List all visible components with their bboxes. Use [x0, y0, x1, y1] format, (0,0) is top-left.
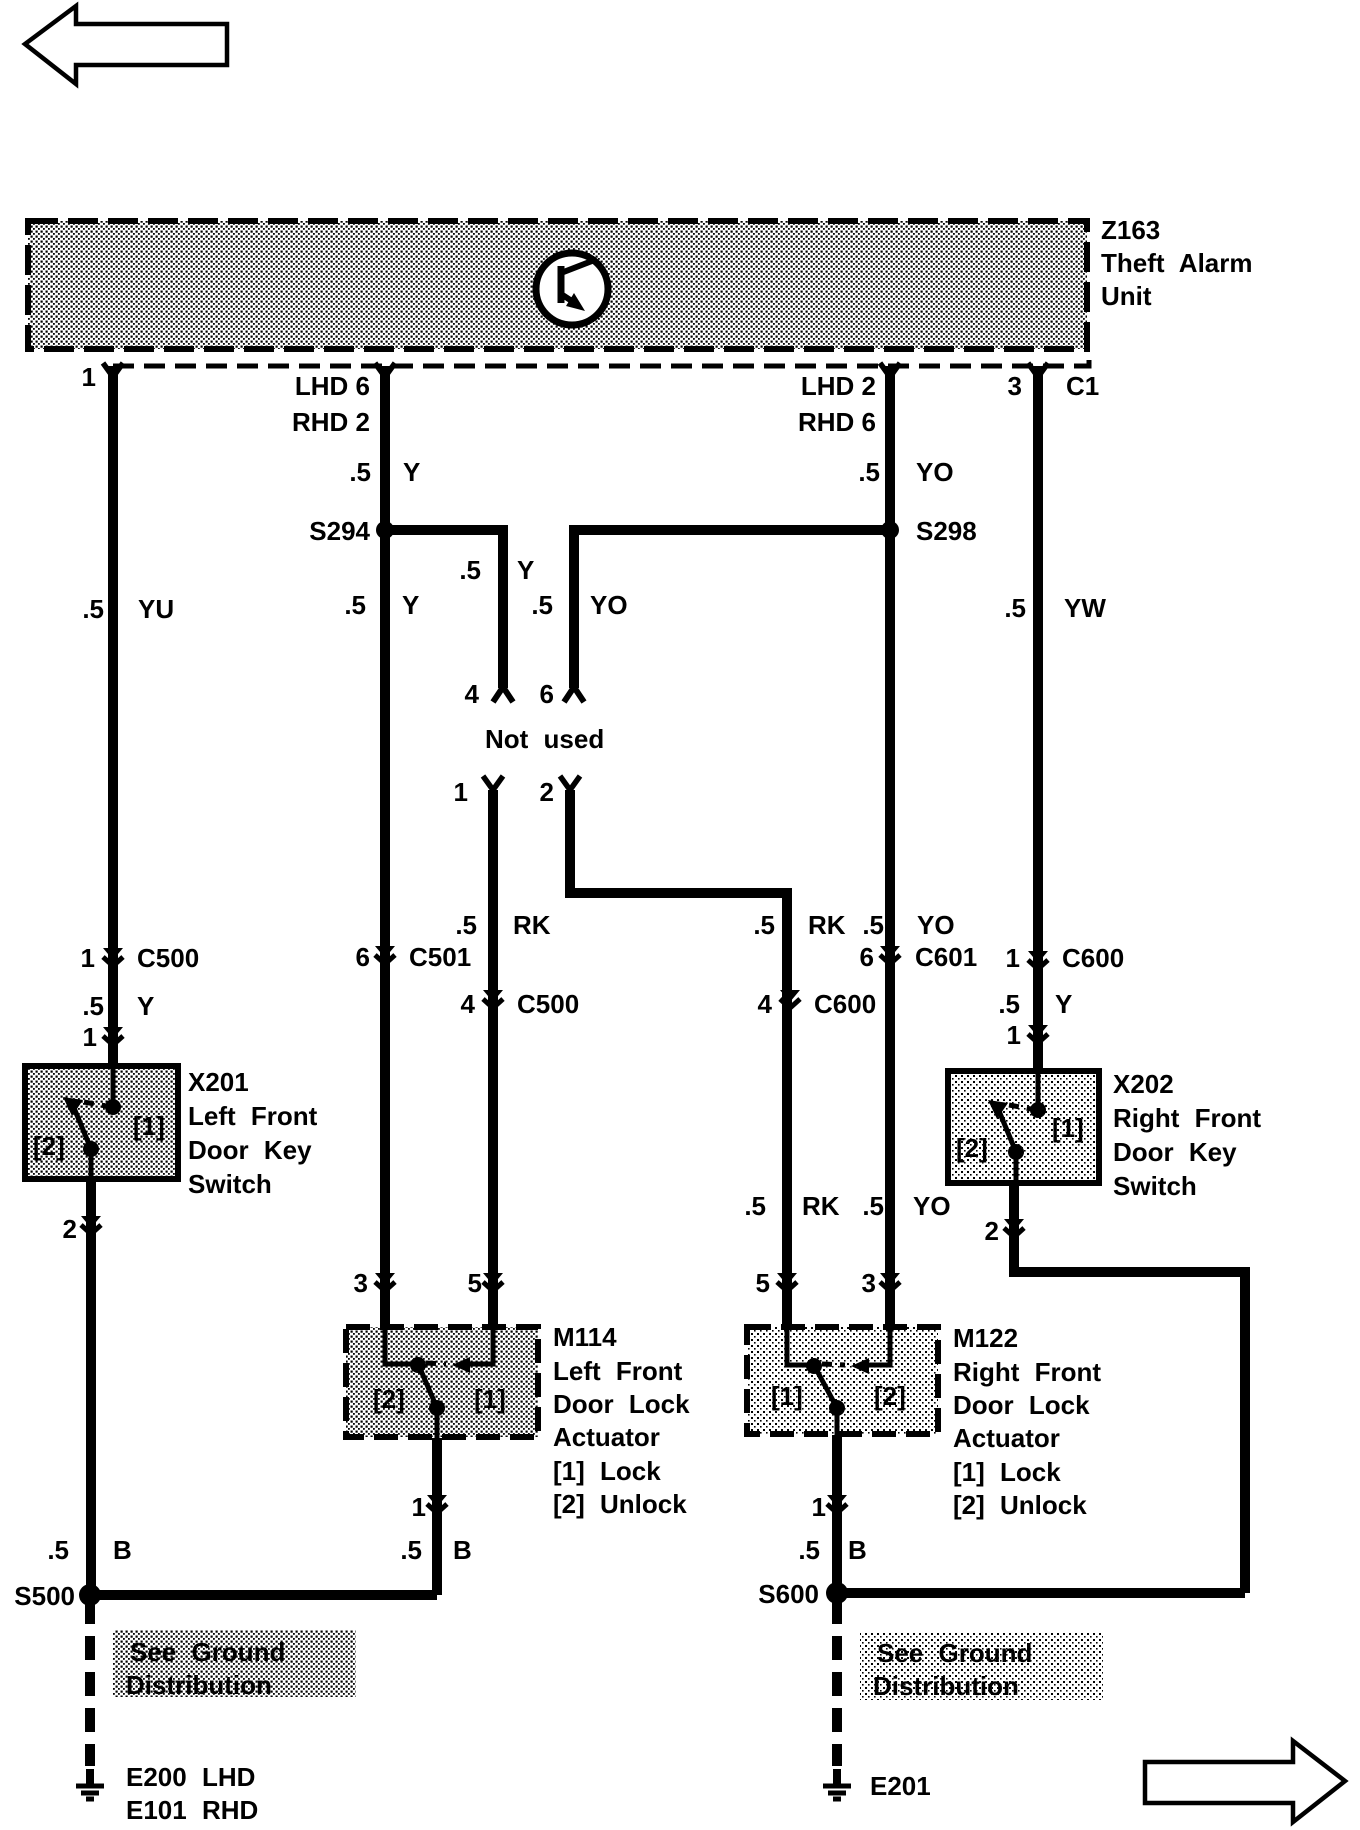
svg-text:RK: RK	[808, 910, 846, 940]
svg-text:1: 1	[454, 777, 468, 807]
svg-text:Distribution: Distribution	[873, 1671, 1019, 1701]
svg-text:Right Front: Right Front	[953, 1357, 1101, 1387]
svg-text:.5: .5	[344, 590, 366, 620]
svg-text:RK: RK	[802, 1191, 840, 1221]
svg-text:.5: .5	[744, 1191, 766, 1221]
svg-text:[1]: [1]	[1052, 1113, 1084, 1143]
svg-text:5: 5	[468, 1268, 482, 1298]
svg-text:.5: .5	[1004, 593, 1026, 623]
svg-text:Right Front: Right Front	[1113, 1103, 1261, 1133]
svg-text:S600: S600	[758, 1579, 819, 1609]
svg-text:4: 4	[758, 989, 773, 1019]
svg-text:B: B	[113, 1535, 132, 1565]
svg-text:X201: X201	[188, 1067, 249, 1097]
svg-text:.5: .5	[349, 457, 371, 487]
svg-text:[2]: [2]	[874, 1381, 906, 1411]
svg-text:.5: .5	[82, 594, 104, 624]
svg-text:.5: .5	[82, 991, 104, 1021]
svg-text:B: B	[848, 1535, 867, 1565]
svg-text:Door Lock: Door Lock	[953, 1390, 1090, 1420]
svg-text:6: 6	[860, 942, 874, 972]
svg-text:Z163: Z163	[1101, 215, 1160, 245]
svg-text:1: 1	[1007, 1020, 1021, 1050]
svg-text:LHD 6: LHD 6	[295, 371, 370, 401]
svg-text:[2]: [2]	[956, 1133, 988, 1163]
svg-text:YU: YU	[138, 594, 174, 624]
svg-text:4: 4	[465, 679, 480, 709]
svg-text:2: 2	[985, 1216, 999, 1246]
svg-text:[2] Unlock: [2] Unlock	[553, 1489, 687, 1519]
svg-text:Y: Y	[137, 991, 154, 1021]
svg-text:M122: M122	[953, 1323, 1018, 1353]
svg-text:S294: S294	[309, 516, 370, 546]
svg-text:C501: C501	[409, 942, 471, 972]
svg-text:C500: C500	[137, 943, 199, 973]
svg-text:M114: M114	[553, 1322, 617, 1352]
svg-text:C1: C1	[1066, 371, 1099, 401]
svg-text:YO: YO	[917, 910, 955, 940]
svg-text:E101 RHD: E101 RHD	[126, 1795, 258, 1825]
svg-text:Switch: Switch	[188, 1169, 272, 1199]
svg-text:5: 5	[756, 1268, 770, 1298]
svg-text:1: 1	[1006, 943, 1020, 973]
svg-text:S500: S500	[14, 1581, 75, 1611]
svg-text:Actuator: Actuator	[953, 1423, 1060, 1453]
svg-text:Y: Y	[402, 590, 419, 620]
svg-text:[1]: [1]	[474, 1384, 506, 1414]
svg-text:Not used: Not used	[485, 724, 604, 754]
svg-text:Door Key: Door Key	[188, 1135, 312, 1165]
svg-text:C600: C600	[814, 989, 876, 1019]
svg-text:.5: .5	[862, 1191, 884, 1221]
svg-text:Left Front: Left Front	[553, 1356, 683, 1386]
svg-text:.5: .5	[47, 1535, 69, 1565]
svg-text:3: 3	[862, 1268, 876, 1298]
svg-text:Distribution: Distribution	[126, 1670, 272, 1700]
svg-text:.5: .5	[998, 989, 1020, 1019]
svg-text:[1]: [1]	[771, 1381, 803, 1411]
svg-text:[1]: [1]	[133, 1111, 165, 1141]
svg-text:1: 1	[81, 943, 95, 973]
svg-text:C500: C500	[517, 989, 579, 1019]
svg-text:Y: Y	[1055, 989, 1072, 1019]
svg-text:.5: .5	[753, 910, 775, 940]
svg-text:.5: .5	[858, 457, 880, 487]
svg-text:3: 3	[1008, 371, 1022, 401]
svg-text:RHD 6: RHD 6	[798, 407, 876, 437]
svg-text:[2]: [2]	[33, 1131, 65, 1161]
svg-text:[1] Lock: [1] Lock	[553, 1456, 661, 1486]
svg-text:Y: Y	[403, 457, 420, 487]
svg-text:C600: C600	[1062, 943, 1124, 973]
svg-text:[1] Lock: [1] Lock	[953, 1457, 1061, 1487]
svg-text:6: 6	[356, 942, 370, 972]
svg-text:2: 2	[540, 777, 554, 807]
svg-text:X202: X202	[1113, 1069, 1174, 1099]
svg-text:.5: .5	[531, 590, 553, 620]
svg-text:.5: .5	[400, 1535, 422, 1565]
svg-text:YO: YO	[590, 590, 628, 620]
svg-text:.5: .5	[862, 910, 884, 940]
svg-text:1: 1	[83, 1022, 97, 1052]
svg-text:C601: C601	[915, 942, 977, 972]
svg-text:Door Lock: Door Lock	[553, 1389, 690, 1419]
svg-text:Left Front: Left Front	[188, 1101, 318, 1131]
svg-text:1: 1	[82, 362, 96, 392]
svg-text:Switch: Switch	[1113, 1171, 1197, 1201]
svg-text:RHD 2: RHD 2	[292, 407, 370, 437]
svg-text:Y: Y	[517, 555, 534, 585]
svg-text:See Ground: See Ground	[130, 1637, 285, 1667]
svg-text:.5: .5	[798, 1535, 820, 1565]
svg-text:YW: YW	[1064, 593, 1106, 623]
svg-text:Actuator: Actuator	[553, 1422, 660, 1452]
svg-text:YO: YO	[913, 1191, 951, 1221]
svg-text:6: 6	[540, 679, 554, 709]
svg-text:B: B	[453, 1535, 472, 1565]
svg-text:E200 LHD: E200 LHD	[126, 1762, 255, 1792]
svg-text:RK: RK	[513, 910, 551, 940]
svg-text:3: 3	[354, 1268, 368, 1298]
svg-text:[2] Unlock: [2] Unlock	[953, 1490, 1087, 1520]
svg-text:YO: YO	[916, 457, 954, 487]
svg-text:See Ground: See Ground	[877, 1638, 1032, 1668]
svg-text:[2]: [2]	[373, 1384, 405, 1414]
svg-text:Door Key: Door Key	[1113, 1137, 1237, 1167]
svg-text:Theft Alarm: Theft Alarm	[1101, 248, 1253, 278]
svg-text:Unit: Unit	[1101, 281, 1152, 311]
svg-text:2: 2	[63, 1214, 77, 1244]
svg-text:.5: .5	[459, 555, 481, 585]
svg-text:.5: .5	[455, 910, 477, 940]
svg-text:1: 1	[412, 1492, 426, 1522]
svg-text:1: 1	[812, 1492, 826, 1522]
svg-text:LHD 2: LHD 2	[801, 371, 876, 401]
svg-text:4: 4	[461, 989, 476, 1019]
svg-text:E201: E201	[870, 1771, 931, 1801]
svg-text:S298: S298	[916, 516, 977, 546]
